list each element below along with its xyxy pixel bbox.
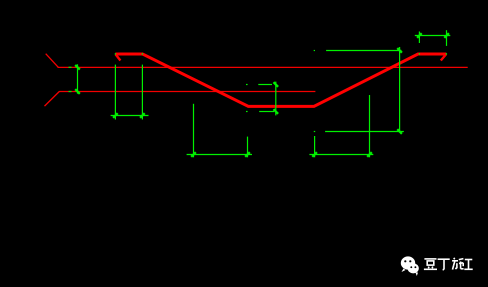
glyph shi [453,258,456,260]
rebar left hook [116,54,121,60]
bent-up rebar [115,54,446,106]
bottom left bend-span dimension [187,104,252,158]
beam left break upper diagonal [46,54,59,68]
glyph dou [424,258,436,260]
overall height dimension [314,47,404,134]
left beam height dimension [69,64,80,94]
left hook length dimension [111,65,149,120]
beam left break lower diagonal [45,92,60,107]
beam top edge line [58,66,468,68]
extension line dots over rebar [115,53,446,55]
glyph gong [465,259,473,261]
right hook length dimension [415,30,451,46]
glyph ding [438,258,450,260]
bottom right bend-span dimension [309,95,373,157]
watermark wechat icon [401,256,419,276]
rebar right hook [441,54,446,60]
middle bend height dimension [246,82,278,116]
watermark text 豆丁施工 [424,258,473,270]
beam bottom edge line [59,91,315,93]
